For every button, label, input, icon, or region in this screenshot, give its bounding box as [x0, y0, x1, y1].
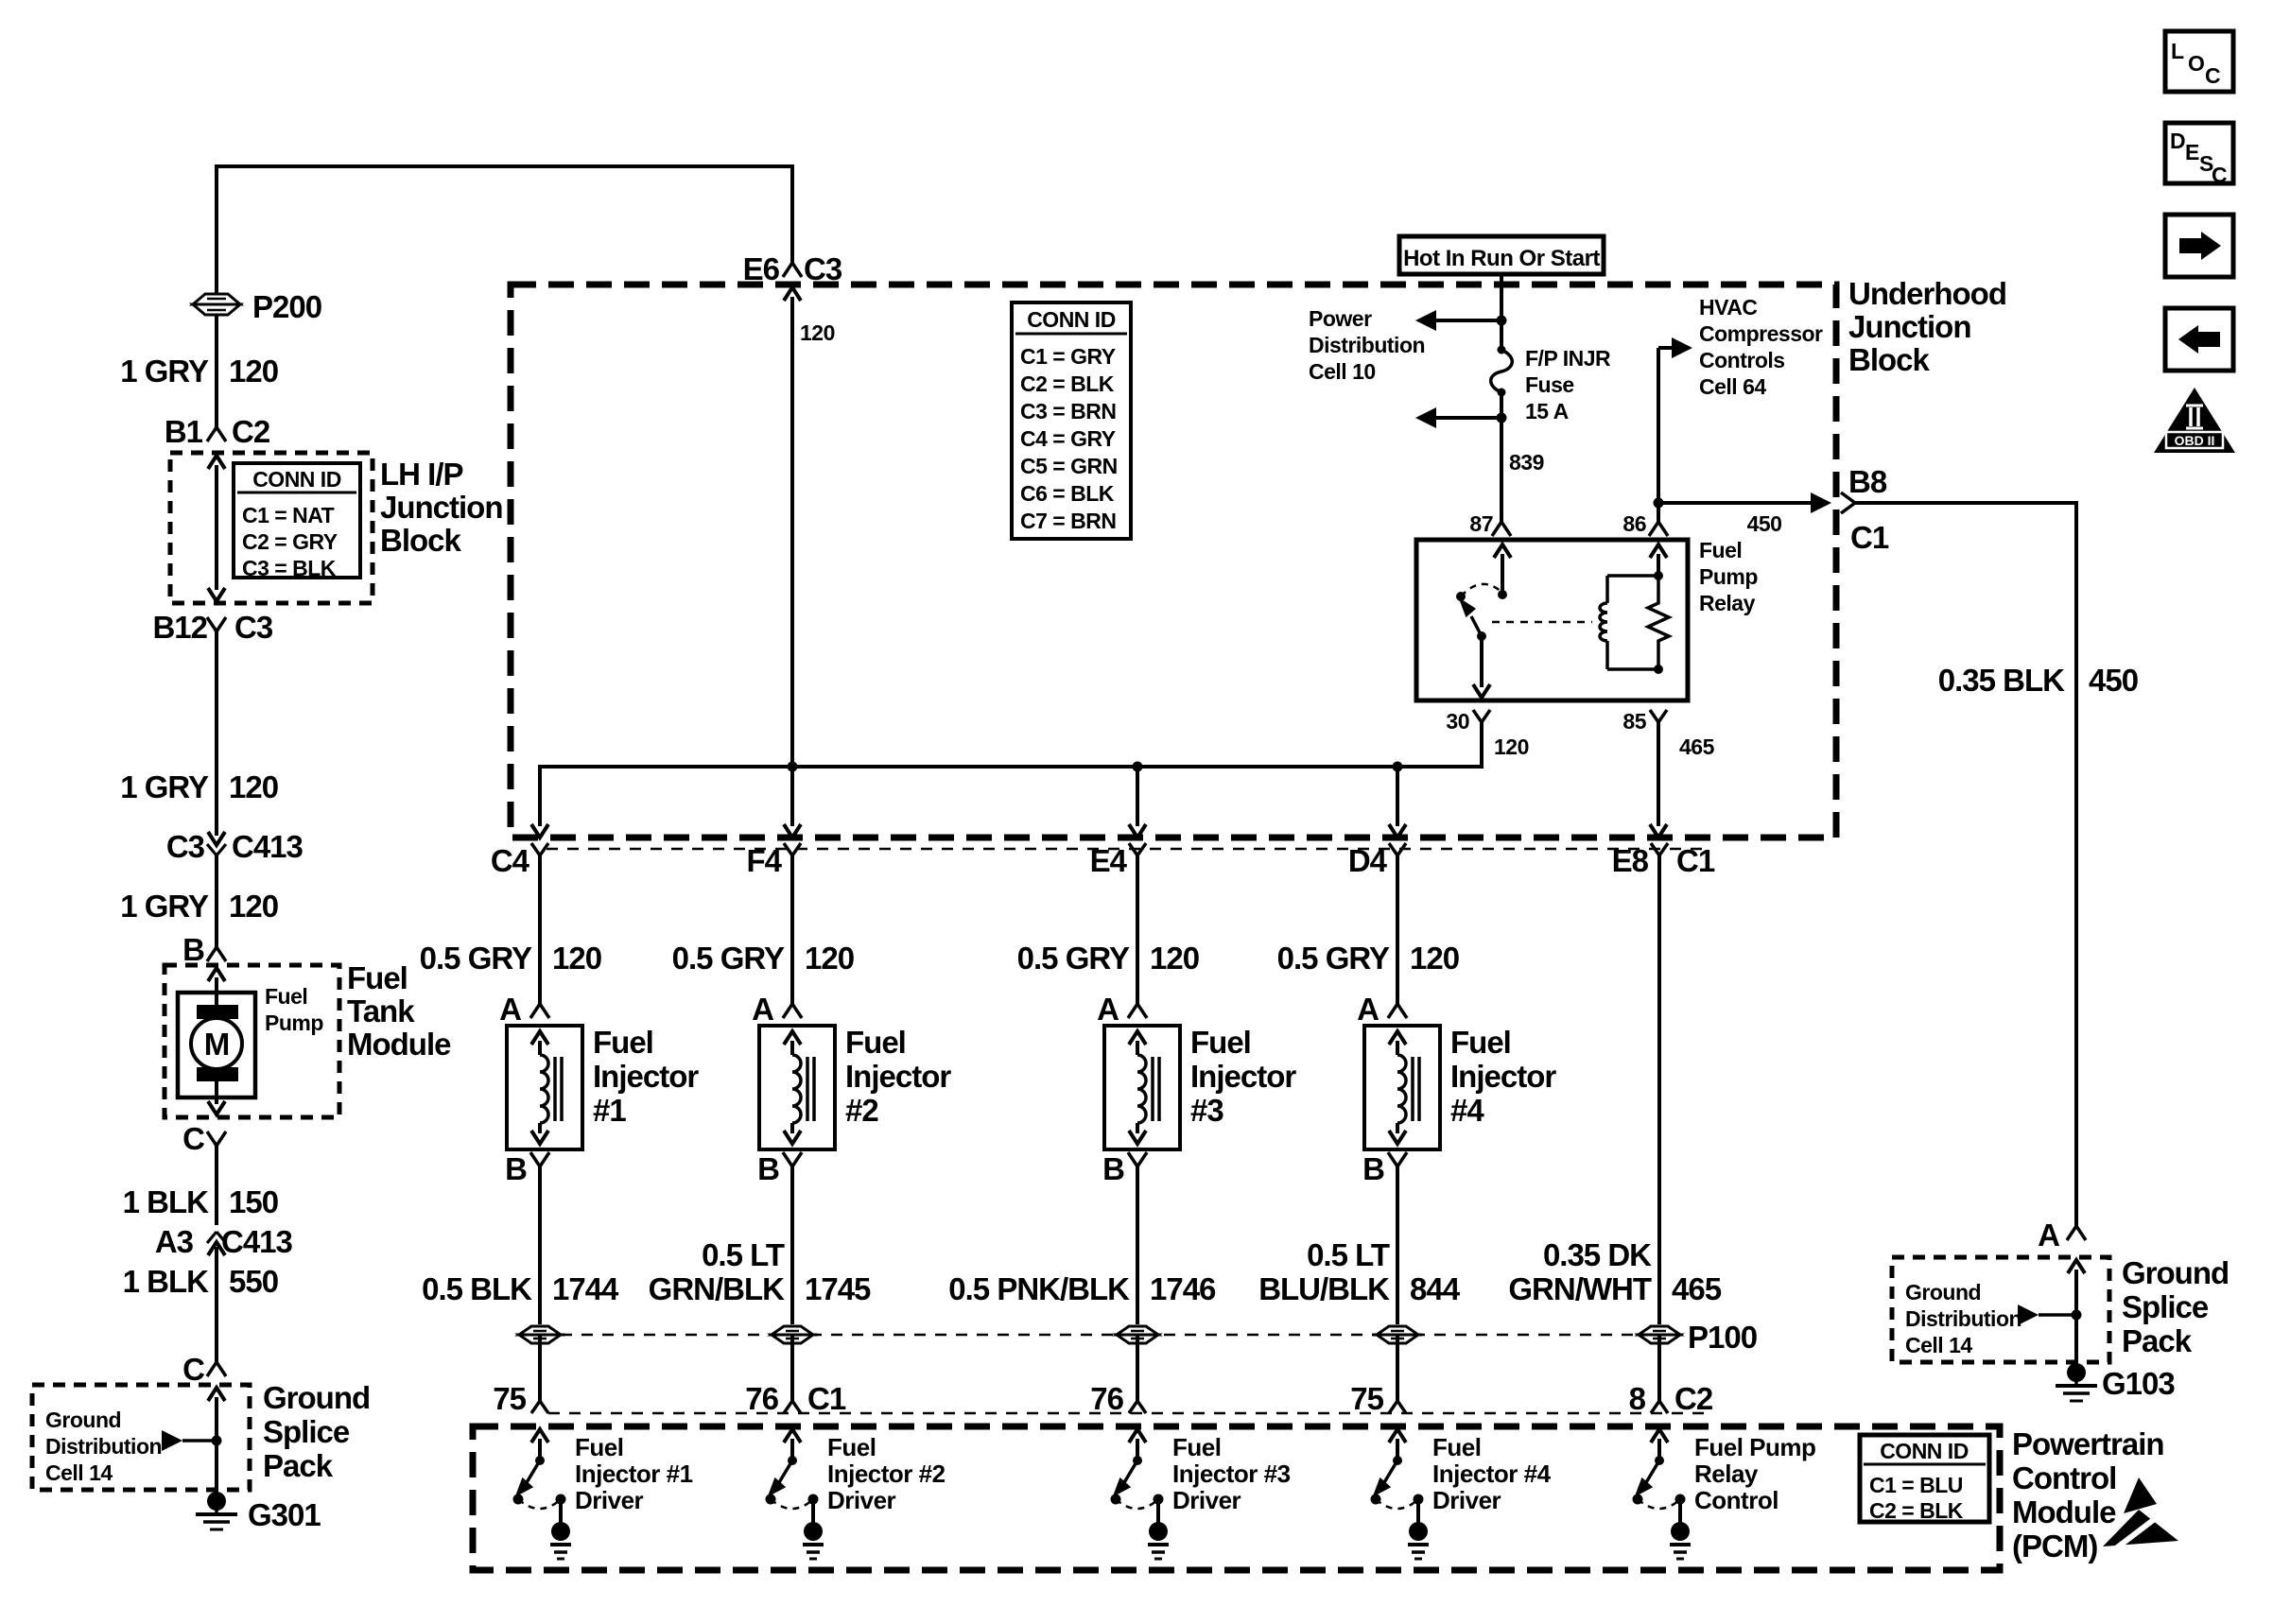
- svg-text:120: 120: [1494, 734, 1529, 759]
- svg-text:A: A: [499, 992, 521, 1027]
- svg-text:D: D: [2170, 129, 2185, 153]
- svg-text:C: C: [182, 1352, 204, 1387]
- svg-text:E8: E8: [1612, 843, 1649, 878]
- svg-text:Fuel: Fuel: [575, 1433, 623, 1461]
- svg-text:0.5 BLK: 0.5 BLK: [422, 1271, 532, 1306]
- splice P100: [1639, 1326, 1680, 1335]
- wire 1 GRY 120 (B12 to C3/C413): [215, 631, 218, 836]
- svg-text:Injector #4: Injector #4: [1432, 1460, 1552, 1488]
- svg-text:Driver: Driver: [1172, 1486, 1241, 1514]
- svg-text:CONN ID: CONN ID: [1880, 1439, 1969, 1463]
- svg-text:Fuse: Fuse: [1525, 372, 1574, 397]
- wires from splices to PCM pins: [538, 1335, 542, 1401]
- svg-text:Fuel: Fuel: [1450, 1025, 1511, 1060]
- CONN ID table (PCM): [1860, 1435, 1989, 1522]
- svg-text:Pack: Pack: [2122, 1323, 2193, 1358]
- svg-text:P200: P200: [252, 289, 321, 324]
- svg-text:Pump: Pump: [1699, 564, 1758, 589]
- fuse F/P INJR 15 A: [1498, 346, 1506, 354]
- svg-text:Cell 64: Cell 64: [1699, 374, 1766, 399]
- svg-text:G301: G301: [248, 1497, 321, 1532]
- svg-text:A: A: [2038, 1218, 2059, 1253]
- ESD sensitive device badge: [2103, 1477, 2178, 1551]
- arrow into connector C4: [531, 824, 548, 838]
- fuel pump relay box: [1416, 540, 1688, 700]
- fuel pump motor M: [208, 968, 225, 981]
- thin dashed splice tie line: [540, 1334, 1659, 1337]
- HVAC compressor arrow: [1658, 346, 1681, 350]
- relay pin 30 contact: [1480, 636, 1484, 687]
- svg-text:C4 = GRY: C4 = GRY: [1020, 426, 1116, 451]
- svg-text:Fuel: Fuel: [265, 984, 307, 1009]
- svg-text:C1 = GRY: C1 = GRY: [1020, 344, 1116, 369]
- wire 120 from E6 down to bus: [784, 287, 801, 301]
- svg-text:A: A: [752, 992, 773, 1027]
- arrow into connector D4: [1389, 824, 1406, 838]
- svg-text:B: B: [1102, 1151, 1124, 1186]
- svg-text:Powertrain: Powertrain: [2012, 1426, 2164, 1461]
- svg-text:Distribution: Distribution: [1309, 333, 1425, 357]
- svg-text:Ground: Ground: [263, 1380, 370, 1415]
- wire 465 from relay 85 to E8: [1657, 720, 1660, 826]
- svg-text:A: A: [1097, 992, 1119, 1027]
- svg-text:465: 465: [1679, 734, 1715, 759]
- wire 0.5 GRY 120 to injector 3: [1136, 855, 1139, 1004]
- ground G301: [215, 1490, 218, 1499]
- svg-text:BLU/BLK: BLU/BLK: [1258, 1271, 1390, 1306]
- svg-text:120: 120: [1410, 941, 1459, 976]
- fuel pump relay control driver: [1651, 1429, 1668, 1443]
- svg-text:450: 450: [1747, 511, 1782, 536]
- wire from injector 1 pin B to splice: [538, 1166, 542, 1324]
- wire 0.5 GRY 120 to injector 4: [1396, 855, 1399, 1004]
- wire 1 GRY 120 (P200 to B1): [215, 315, 218, 427]
- svg-text:Distribution: Distribution: [1905, 1306, 2021, 1331]
- relay pin 87 contact: [1494, 544, 1511, 558]
- wire from injector 4 pin B to splice: [1396, 1166, 1399, 1324]
- svg-text:(PCM): (PCM): [2012, 1529, 2097, 1564]
- power distribution arrow bottom: [1428, 416, 1501, 420]
- wire into ground splice pack G103: [2068, 1260, 2085, 1273]
- svg-text:Control: Control: [2012, 1460, 2116, 1495]
- svg-text:CONN ID: CONN ID: [1027, 307, 1116, 332]
- svg-text:C4: C4: [491, 843, 530, 878]
- svg-text:Fuel: Fuel: [845, 1025, 906, 1060]
- svg-text:C2 = BLK: C2 = BLK: [1869, 1498, 1964, 1523]
- wire through LH I/P junction block: [208, 456, 225, 469]
- svg-text:Injector #2: Injector #2: [827, 1460, 946, 1488]
- svg-text:75: 75: [493, 1381, 526, 1416]
- svg-text:0.5 GRY: 0.5 GRY: [1017, 941, 1130, 976]
- svg-text:E4: E4: [1090, 843, 1128, 878]
- svg-text:1 GRY: 1 GRY: [120, 889, 209, 924]
- svg-text:1746: 1746: [1150, 1271, 1216, 1306]
- junction dot power distribution top: [1497, 316, 1507, 326]
- svg-text:0.5 GRY: 0.5 GRY: [420, 941, 532, 976]
- splice on injector 1 wire: [519, 1326, 561, 1335]
- fuel injector #1 driver: [531, 1429, 548, 1443]
- svg-text:GRN/WHT: GRN/WHT: [1508, 1271, 1651, 1306]
- svg-text:Pump: Pump: [265, 1011, 323, 1035]
- svg-text:465: 465: [1672, 1271, 1722, 1306]
- svg-text:839: 839: [1509, 450, 1544, 475]
- svg-text:Ground: Ground: [2122, 1255, 2229, 1290]
- svg-text:Driver: Driver: [827, 1486, 896, 1514]
- svg-text:0.5 LT: 0.5 LT: [702, 1237, 785, 1272]
- fuel injector #2 driver: [784, 1429, 801, 1443]
- svg-text:G103: G103: [2102, 1366, 2175, 1401]
- svg-text:C1 = BLU: C1 = BLU: [1869, 1473, 1963, 1497]
- svg-text:A: A: [1357, 992, 1379, 1027]
- svg-text:#3: #3: [1190, 1093, 1223, 1128]
- svg-text:Pack: Pack: [263, 1448, 334, 1483]
- ground distribution feed arrow (right): [2018, 1304, 2039, 1325]
- svg-text:C413: C413: [221, 1224, 293, 1259]
- svg-text:Ground: Ground: [1905, 1280, 1981, 1304]
- splice on injector 3 wire: [1117, 1326, 1158, 1335]
- svg-text:0.5 PNK/BLK: 0.5 PNK/BLK: [948, 1271, 1130, 1306]
- splice on injector 4 wire: [1377, 1326, 1418, 1335]
- svg-text:76: 76: [1090, 1381, 1123, 1416]
- svg-text:1745: 1745: [805, 1271, 871, 1306]
- powertrain control module box (dashed): [473, 1426, 2000, 1570]
- power distribution arrow top: [1428, 319, 1501, 322]
- relay actuation dashed arc: [1461, 584, 1502, 596]
- svg-text:C413: C413: [232, 829, 304, 864]
- wire 0.5 GRY 120 to injector 1: [538, 855, 542, 1004]
- relay coil resistor: [1648, 576, 1669, 669]
- thin dashed connector line below junction block: [547, 848, 1709, 851]
- wire from injector 2 pin B to splice: [790, 1166, 794, 1324]
- svg-text:B: B: [757, 1151, 779, 1186]
- arrow into connector F4: [784, 824, 801, 838]
- wire top feed from P200 to E6: [215, 168, 218, 295]
- thin dashed connector line above PCM: [548, 1412, 1709, 1415]
- svg-text:Fuel: Fuel: [827, 1433, 876, 1461]
- svg-text:C5 = GRN: C5 = GRN: [1020, 454, 1118, 478]
- svg-text:Controls: Controls: [1699, 348, 1785, 372]
- ground splice pack box left (dashed): [32, 1385, 250, 1490]
- svg-text:75: 75: [1350, 1381, 1383, 1416]
- relay mechanical link dashed: [1492, 621, 1592, 624]
- svg-text:120: 120: [800, 320, 835, 345]
- CONN ID table (underhood junction block): [1012, 302, 1131, 539]
- back arrow navigation box: [2165, 308, 2233, 371]
- svg-text:0.5 GRY: 0.5 GRY: [1277, 941, 1390, 976]
- svg-text:P100: P100: [1688, 1320, 1757, 1355]
- svg-text:Block: Block: [1848, 342, 1931, 377]
- wire from pin 86 to HVAC and 450: [1657, 348, 1660, 522]
- fuel injector #3 driver: [1129, 1429, 1146, 1443]
- relay pin 86 contact: [1657, 554, 1660, 576]
- svg-text:C2 = BLK: C2 = BLK: [1020, 371, 1115, 396]
- svg-text:M: M: [204, 1027, 230, 1062]
- wire 450 to B8: [1658, 501, 1819, 505]
- svg-text:GRN/BLK: GRN/BLK: [649, 1271, 785, 1306]
- wire 839 from fuse to relay pin 87: [1500, 392, 1503, 522]
- fuel tank module box (dashed): [165, 965, 339, 1117]
- svg-text:0.35 BLK: 0.35 BLK: [1938, 663, 2065, 698]
- svg-text:Injector #1: Injector #1: [575, 1460, 693, 1488]
- wire 1 GRY 120 (C413 to fuel tank module pin B): [215, 855, 218, 947]
- fuel injector #4 driver: [1389, 1429, 1406, 1443]
- svg-text:15 A: 15 A: [1525, 399, 1569, 423]
- svg-text:#4: #4: [1450, 1093, 1484, 1128]
- svg-text:Relay: Relay: [1694, 1460, 1759, 1488]
- svg-text:0.5 LT: 0.5 LT: [1307, 1237, 1390, 1272]
- svg-text:1 GRY: 1 GRY: [120, 769, 209, 804]
- svg-text:Junction: Junction: [380, 490, 503, 525]
- svg-text:1 GRY: 1 GRY: [120, 354, 209, 389]
- svg-text:450: 450: [2089, 663, 2138, 698]
- svg-text:1744: 1744: [552, 1271, 619, 1306]
- svg-text:Underhood: Underhood: [1848, 276, 2006, 311]
- svg-text:Cell 14: Cell 14: [1905, 1333, 1972, 1357]
- svg-text:F/P INJR: F/P INJR: [1525, 346, 1611, 371]
- relay movable contact lever: [1471, 616, 1482, 636]
- svg-text:L: L: [2171, 39, 2184, 63]
- junction dot bus F4: [788, 762, 798, 772]
- wire 0.35 BLK 450 right side: [1853, 501, 2076, 505]
- svg-text:Fuel: Fuel: [1190, 1025, 1251, 1060]
- svg-text:B8: B8: [1848, 464, 1887, 499]
- svg-text:C3: C3: [234, 610, 273, 645]
- bus wire 120 inside junction block: [538, 765, 542, 826]
- svg-text:F4: F4: [746, 843, 782, 878]
- svg-text:LH I/P: LH I/P: [380, 457, 463, 492]
- svg-text:CONN ID: CONN ID: [252, 467, 341, 492]
- svg-text:E6: E6: [743, 251, 780, 286]
- svg-text:B: B: [1362, 1151, 1384, 1186]
- svg-text:C: C: [182, 1121, 204, 1156]
- svg-text:#2: #2: [845, 1093, 878, 1128]
- svg-text:120: 120: [229, 769, 278, 804]
- svg-text:Relay: Relay: [1699, 591, 1756, 615]
- svg-text:Fuel Pump: Fuel Pump: [1694, 1433, 1815, 1461]
- svg-text:Fuel: Fuel: [347, 960, 408, 995]
- svg-text:C1: C1: [807, 1381, 846, 1416]
- svg-text:120: 120: [229, 354, 278, 389]
- svg-text:B: B: [182, 932, 204, 967]
- wire E8 to P100: [1657, 855, 1661, 1324]
- junction dot bus E4: [1133, 762, 1143, 772]
- svg-text:Cell 10: Cell 10: [1309, 359, 1376, 384]
- splice P200: [193, 294, 240, 304]
- svg-text:Fuel: Fuel: [1699, 538, 1742, 562]
- svg-text:Module: Module: [2012, 1494, 2116, 1529]
- CONN ID table (LH I/P junction block): [234, 463, 360, 578]
- svg-text:120: 120: [552, 941, 601, 976]
- svg-text:120: 120: [1150, 941, 1199, 976]
- svg-text:30: 30: [1446, 709, 1469, 734]
- svg-text:C1: C1: [1676, 843, 1715, 878]
- ground G103: [2067, 1363, 2086, 1382]
- svg-text:Injector #3: Injector #3: [1172, 1460, 1291, 1488]
- svg-text:Block: Block: [380, 523, 462, 558]
- svg-text:C: C: [2212, 163, 2227, 187]
- svg-text:844: 844: [1410, 1271, 1461, 1306]
- wire 1 BLK 150: [215, 1146, 218, 1225]
- relay fixed contact: [1456, 592, 1466, 601]
- junction dot power distribution bottom: [1497, 413, 1507, 423]
- wire 0.5 GRY 120 to injector 2: [790, 855, 794, 1004]
- relay coil: [1605, 576, 1609, 603]
- svg-text:150: 150: [229, 1184, 278, 1219]
- svg-text:A3: A3: [155, 1224, 194, 1259]
- svg-text:Injector: Injector: [845, 1059, 951, 1094]
- OBD II triangle badge: [2154, 388, 2235, 453]
- svg-text:0.35 DK: 0.35 DK: [1543, 1237, 1652, 1272]
- svg-text:C3 = BLK: C3 = BLK: [242, 556, 337, 580]
- wire from injector 3 pin B to splice: [1136, 1166, 1139, 1324]
- svg-text:C2: C2: [232, 414, 270, 449]
- svg-text:#1: #1: [593, 1093, 626, 1128]
- svg-text:Fuel: Fuel: [1172, 1433, 1221, 1461]
- svg-text:C3: C3: [166, 829, 205, 864]
- ground splice pack box right (dashed): [1892, 1257, 2109, 1362]
- svg-text:C6 = BLK: C6 = BLK: [1020, 481, 1115, 506]
- svg-text:OBD II: OBD II: [2175, 433, 2215, 448]
- svg-text:C2 = GRY: C2 = GRY: [242, 529, 338, 554]
- DESC navigation box: [2165, 123, 2233, 183]
- svg-text:Driver: Driver: [1432, 1486, 1501, 1514]
- svg-text:Control: Control: [1694, 1486, 1778, 1514]
- svg-text:Cell 14: Cell 14: [45, 1460, 113, 1485]
- ground distribution feed arrow (left): [162, 1430, 182, 1451]
- svg-text:HVAC: HVAC: [1699, 295, 1757, 320]
- svg-text:B1: B1: [165, 414, 203, 449]
- svg-text:87: 87: [1469, 511, 1493, 536]
- underhood junction block box (dashed): [511, 285, 1836, 838]
- svg-text:1 BLK: 1 BLK: [123, 1264, 210, 1299]
- svg-text:550: 550: [229, 1264, 278, 1299]
- svg-text:Driver: Driver: [575, 1486, 644, 1514]
- LH I/P junction block (dashed): [170, 453, 373, 603]
- Hot In Run Or Start box: [1399, 236, 1604, 274]
- svg-text:Distribution: Distribution: [45, 1434, 162, 1459]
- svg-text:Splice: Splice: [2122, 1289, 2209, 1324]
- svg-text:E: E: [2185, 140, 2199, 164]
- svg-text:C2: C2: [1674, 1381, 1713, 1416]
- svg-text:Compressor: Compressor: [1699, 321, 1823, 346]
- svg-text:C: C: [2205, 63, 2220, 88]
- svg-text:Ground: Ground: [45, 1408, 121, 1432]
- svg-text:Injector: Injector: [1190, 1059, 1296, 1094]
- svg-text:C1 = NAT: C1 = NAT: [242, 503, 335, 527]
- wire into ground splice pack G301: [208, 1388, 225, 1401]
- svg-text:76: 76: [745, 1381, 778, 1416]
- svg-text:C7 = BRN: C7 = BRN: [1020, 509, 1116, 533]
- svg-text:C3 = BRN: C3 = BRN: [1020, 399, 1116, 423]
- forward arrow navigation box: [2165, 215, 2233, 277]
- svg-text:Power: Power: [1309, 306, 1372, 331]
- svg-text:Fuel: Fuel: [1432, 1433, 1481, 1461]
- svg-text:Splice: Splice: [263, 1414, 350, 1449]
- svg-text:85: 85: [1622, 709, 1646, 734]
- svg-text:B12: B12: [152, 610, 207, 645]
- svg-text:1 BLK: 1 BLK: [123, 1184, 210, 1219]
- LOC navigation box: [2165, 31, 2233, 92]
- svg-text:86: 86: [1622, 511, 1646, 536]
- svg-text:0.5 GRY: 0.5 GRY: [672, 941, 785, 976]
- svg-text:C1: C1: [1850, 520, 1889, 555]
- arrow into connector E4: [1129, 824, 1146, 838]
- svg-text:B: B: [505, 1151, 527, 1186]
- svg-text:8: 8: [1629, 1381, 1646, 1416]
- svg-text:Fuel: Fuel: [593, 1025, 653, 1060]
- svg-text:Tank: Tank: [347, 993, 415, 1028]
- junction dot 450 branch: [1654, 498, 1664, 509]
- svg-text:120: 120: [805, 941, 854, 976]
- svg-text:Module: Module: [347, 1027, 451, 1062]
- svg-text:D4: D4: [1348, 843, 1388, 878]
- svg-text:C3: C3: [804, 251, 842, 286]
- wire 120 relay pin 30 to bus: [1480, 720, 1484, 769]
- svg-text:Injector: Injector: [593, 1059, 699, 1094]
- svg-text:Injector: Injector: [1450, 1059, 1556, 1094]
- wire from Hot In Run Or Start to fuse: [1500, 274, 1503, 350]
- svg-text:Hot In Run Or Start: Hot In Run Or Start: [1403, 246, 1600, 271]
- svg-text:Junction: Junction: [1848, 309, 1971, 344]
- svg-text:O: O: [2188, 51, 2204, 76]
- splice on injector 2 wire: [772, 1326, 813, 1335]
- junction dot bus D4: [1393, 762, 1403, 772]
- wire 1 BLK 550: [215, 1247, 218, 1362]
- svg-text:120: 120: [229, 889, 278, 924]
